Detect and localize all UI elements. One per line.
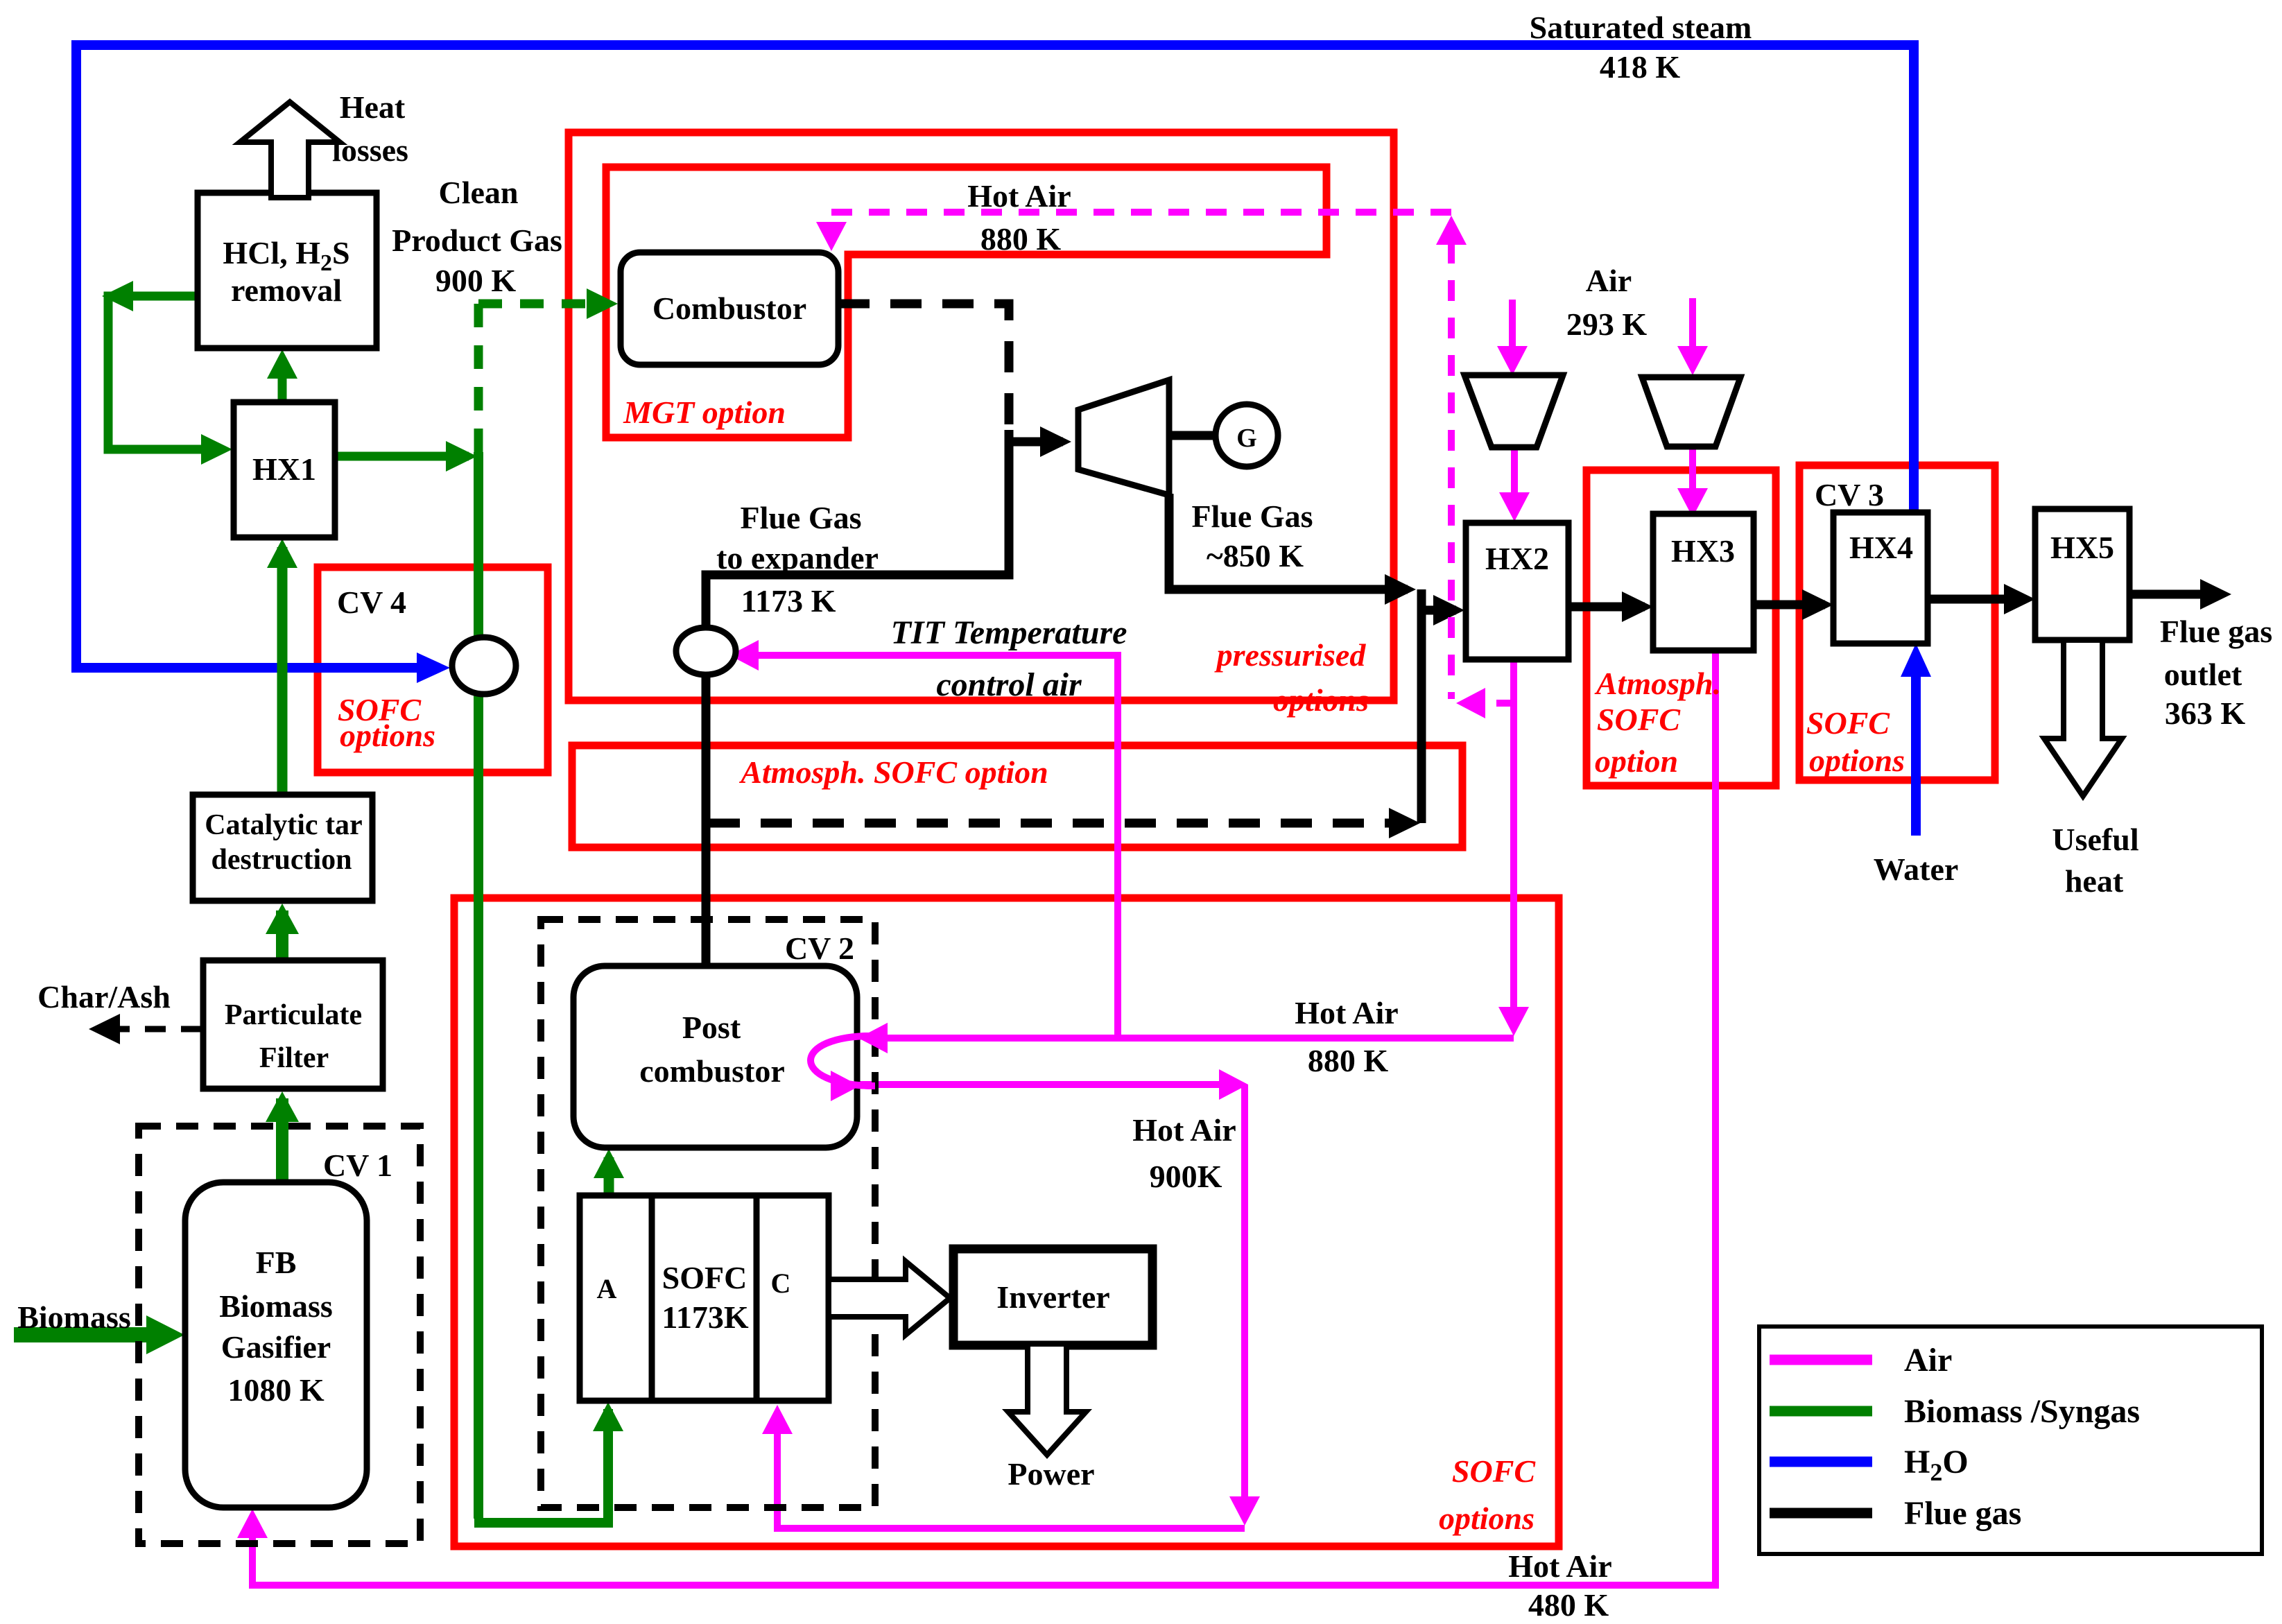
- svg-text:MGT option: MGT option: [623, 395, 786, 430]
- svg-text:Hot Air: Hot Air: [1295, 995, 1398, 1030]
- svg-text:Filter: Filter: [259, 1042, 329, 1074]
- svg-text:Inverter: Inverter: [996, 1279, 1109, 1315]
- svg-text:Flue gas: Flue gas: [1904, 1495, 2021, 1532]
- svg-text:Biomass /Syngas: Biomass /Syngas: [1904, 1393, 2140, 1430]
- svg-text:CV 3: CV 3: [1815, 477, 1884, 512]
- svg-text:Atmosph. SOFC option: Atmosph. SOFC option: [738, 754, 1048, 790]
- svg-text:480 K: 480 K: [1528, 1587, 1609, 1623]
- svg-text:900K: 900K: [1150, 1159, 1222, 1194]
- svg-text:pressurised: pressurised: [1214, 637, 1367, 673]
- svg-text:Combustor: Combustor: [652, 291, 806, 326]
- svg-text:Char/Ash: Char/Ash: [37, 979, 171, 1014]
- svg-text:Biomass: Biomass: [219, 1288, 333, 1324]
- svg-text:363 K: 363 K: [2165, 696, 2246, 731]
- svg-text:FB: FB: [256, 1245, 297, 1280]
- svg-text:Hot Air: Hot Air: [967, 178, 1071, 214]
- svg-text:900 K: 900 K: [435, 263, 517, 298]
- svg-text:Heat: Heat: [340, 89, 406, 125]
- svg-text:SOFC: SOFC: [662, 1260, 747, 1295]
- svg-text:options: options: [340, 718, 435, 753]
- svg-text:Product Gas: Product Gas: [392, 223, 562, 258]
- svg-text:1173K: 1173K: [662, 1299, 748, 1335]
- svg-text:Gasifier: Gasifier: [221, 1329, 331, 1365]
- svg-text:TIT Temperature: TIT Temperature: [891, 614, 1127, 651]
- svg-text:option: option: [1595, 743, 1678, 779]
- svg-text:Saturated steam: Saturated steam: [1530, 10, 1752, 45]
- svg-text:880 K: 880 K: [980, 221, 1062, 257]
- svg-text:Catalytic tar: Catalytic tar: [205, 809, 362, 841]
- svg-text:destruction: destruction: [211, 844, 352, 876]
- svg-text:options: options: [1273, 682, 1369, 718]
- svg-text:Post: Post: [682, 1010, 741, 1045]
- svg-text:Flue gas: Flue gas: [2160, 614, 2272, 649]
- svg-text:Particulate: Particulate: [225, 999, 362, 1031]
- svg-text:Flue Gas: Flue Gas: [1191, 499, 1313, 534]
- svg-text:options: options: [1809, 743, 1905, 778]
- svg-text:Water: Water: [1874, 852, 1959, 887]
- svg-text:Air: Air: [1904, 1342, 1952, 1379]
- svg-text:HX4: HX4: [1849, 530, 1913, 565]
- svg-text:Flue Gas: Flue Gas: [740, 500, 861, 535]
- svg-text:removal: removal: [231, 273, 342, 308]
- svg-text:control air: control air: [936, 666, 1082, 703]
- svg-text:CV 1: CV 1: [323, 1148, 392, 1183]
- svg-text:C: C: [771, 1268, 791, 1299]
- svg-text:418 K: 418 K: [1600, 49, 1681, 85]
- svg-text:1173 K: 1173 K: [741, 583, 836, 619]
- svg-text:CV 2: CV 2: [785, 931, 854, 966]
- svg-text:Atmosph.: Atmosph.: [1594, 666, 1721, 701]
- svg-text:880 K: 880 K: [1308, 1043, 1389, 1078]
- svg-text:Clean: Clean: [439, 175, 519, 210]
- svg-text:combustor: combustor: [639, 1053, 785, 1089]
- svg-text:Air: Air: [1586, 263, 1632, 298]
- svg-text:losses: losses: [332, 132, 408, 168]
- svg-text:SOFC: SOFC: [1806, 705, 1890, 741]
- svg-text:A: A: [597, 1273, 617, 1304]
- svg-text:outlet: outlet: [2164, 657, 2242, 692]
- svg-text:1080 K: 1080 K: [227, 1372, 325, 1408]
- svg-text:options: options: [1439, 1501, 1535, 1536]
- svg-text:293 K: 293 K: [1566, 306, 1648, 342]
- svg-text:to expander: to expander: [716, 540, 879, 576]
- svg-text:heat: heat: [2065, 863, 2124, 899]
- svg-text:Biomass: Biomass: [17, 1299, 131, 1335]
- svg-text:Useful: Useful: [2052, 822, 2138, 857]
- svg-text:Hot Air: Hot Air: [1508, 1548, 1611, 1584]
- svg-text:~850 K: ~850 K: [1207, 538, 1304, 573]
- svg-text:SOFC: SOFC: [1452, 1453, 1536, 1489]
- svg-text:HX3: HX3: [1671, 533, 1735, 569]
- svg-text:SOFC: SOFC: [1597, 702, 1681, 737]
- svg-text:Hot Air: Hot Air: [1132, 1112, 1236, 1148]
- svg-text:G: G: [1236, 424, 1257, 453]
- svg-text:HX1: HX1: [252, 451, 316, 487]
- svg-text:HX2: HX2: [1485, 541, 1549, 576]
- svg-text:HX5: HX5: [2050, 530, 2114, 565]
- svg-text:Power: Power: [1008, 1456, 1094, 1492]
- svg-text:CV 4: CV 4: [337, 585, 406, 620]
